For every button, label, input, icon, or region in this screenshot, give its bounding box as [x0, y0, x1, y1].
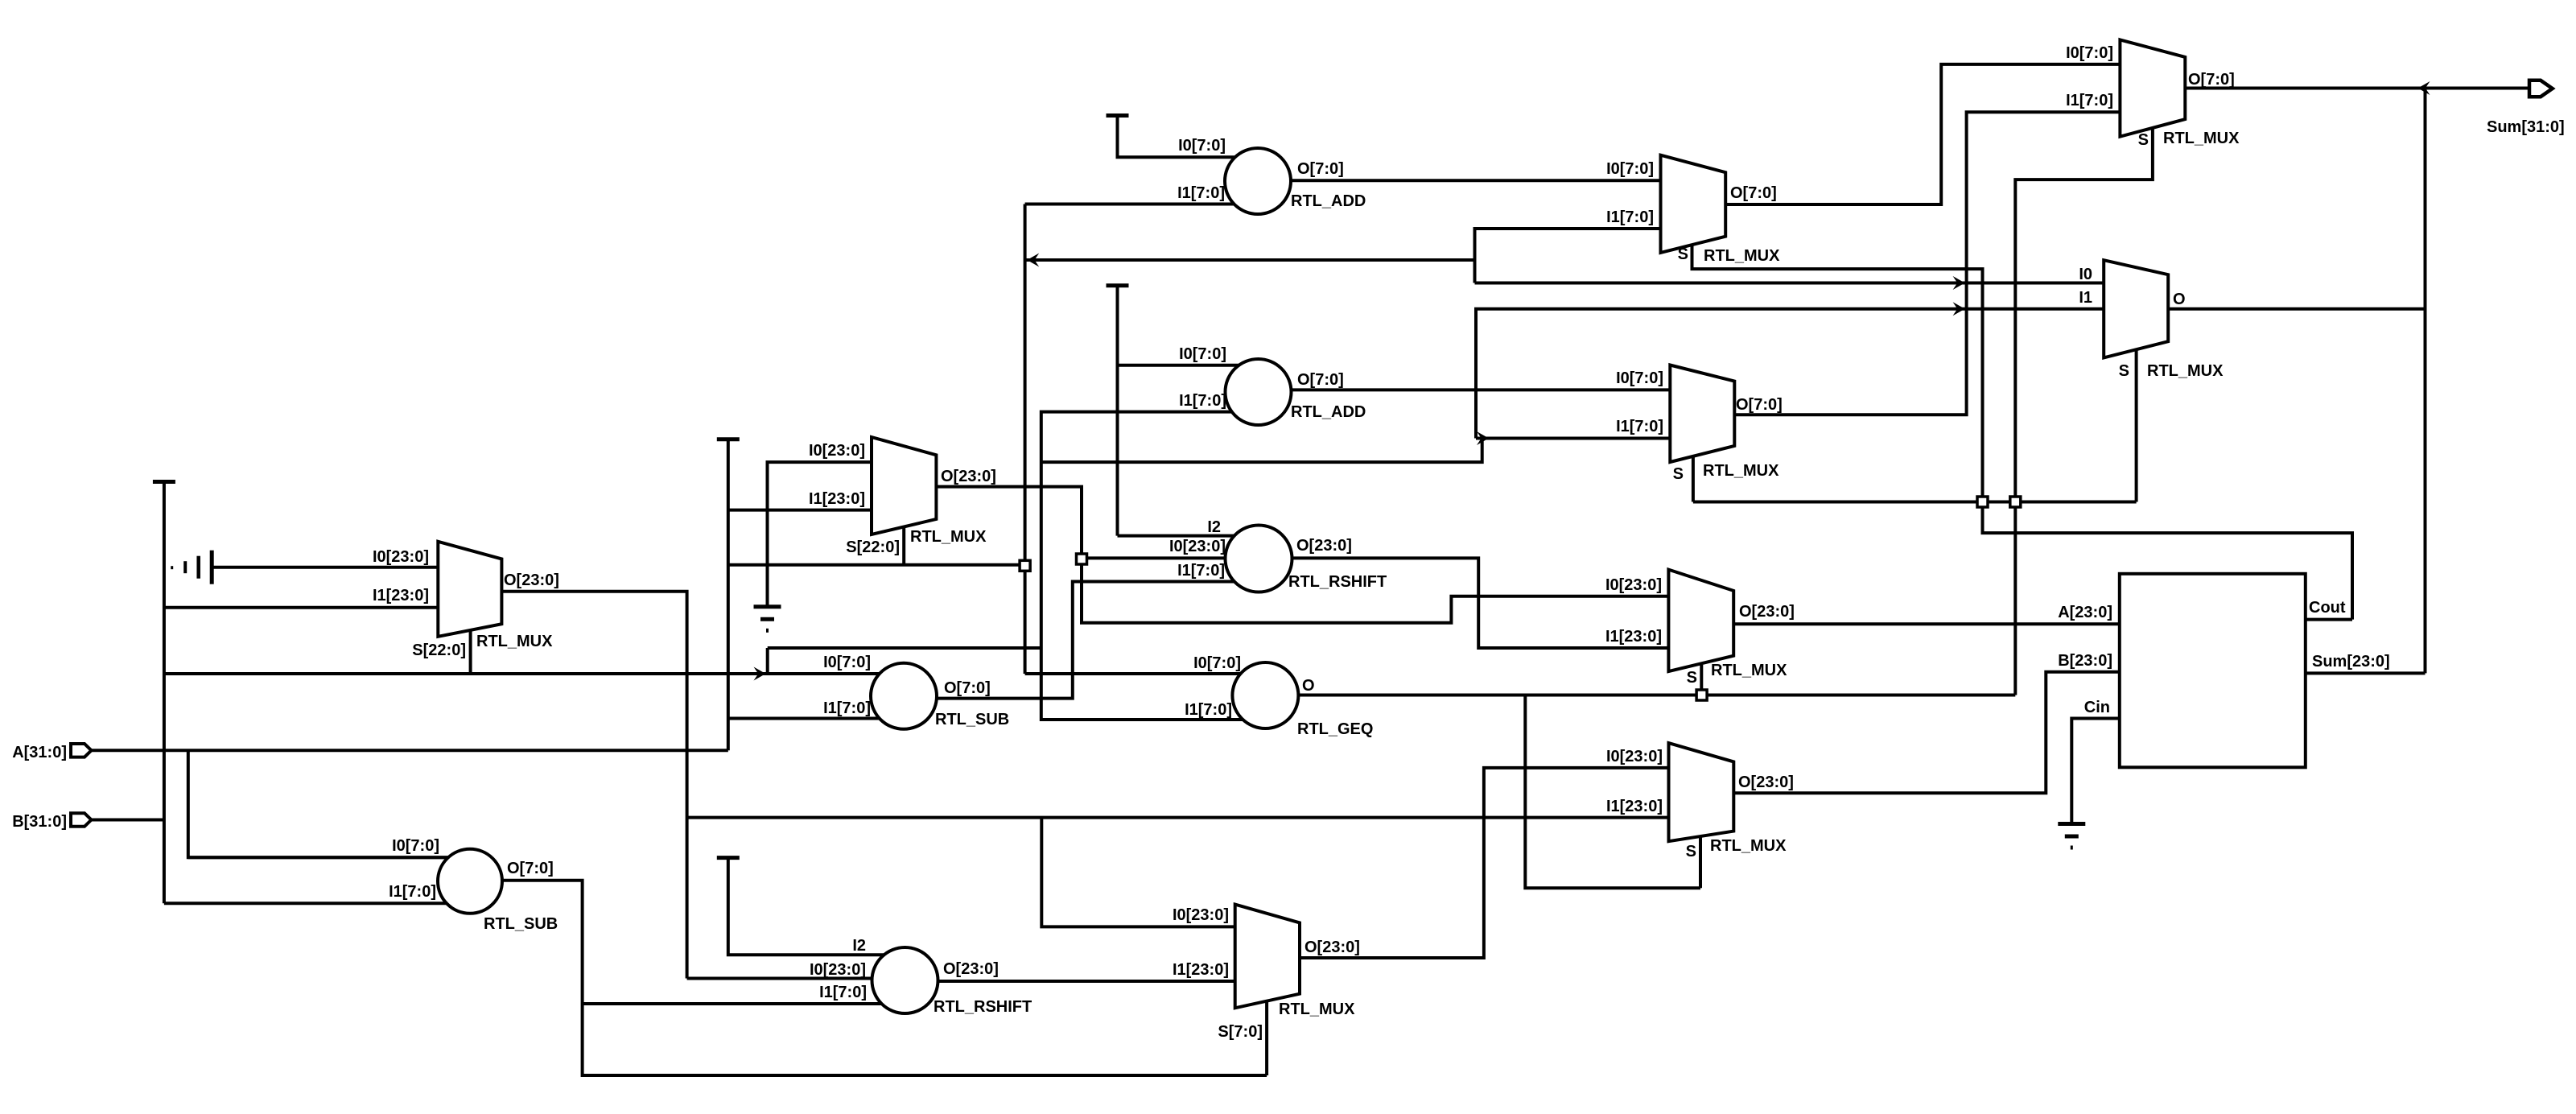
mux U3 RTL_MUX top	[1661, 155, 1726, 253]
svg-text:I0[7:0]: I0[7:0]	[1179, 345, 1226, 363]
wire MUX2 S stub	[902, 526, 905, 565]
svg-text:I0[23:0]: I0[23:0]	[810, 961, 866, 979]
wire RTL_SUB2 output to MUX9 S	[499, 881, 1267, 1075]
power VCC4	[1107, 283, 1129, 287]
wire GEQ I0 input	[1025, 672, 1265, 675]
wire RTL_RSHIFT2 I1 input	[583, 1002, 905, 1005]
wire Sum vertical	[2424, 89, 2427, 674]
svg-text:S[7:0]: S[7:0]	[1218, 1023, 1263, 1041]
svg-text:RTL_MUX: RTL_MUX	[1279, 1001, 1355, 1018]
wire VCC4 to ADD2 I0	[1118, 364, 1259, 367]
wire MUX3 I1 net to MUX5 I0 junction	[1475, 282, 1967, 285]
wire RSHIFT1 output	[1259, 558, 1678, 648]
wire VCC4 to RSHIFT1 I2	[1118, 534, 1259, 538]
wire MUX5 output	[2168, 307, 2425, 311]
svg-text:I1[7:0]: I1[7:0]	[823, 699, 871, 717]
wire ADD1 I1 vertical net	[1024, 204, 1027, 675]
svg-text:RTL_MUX: RTL_MUX	[476, 633, 553, 650]
svg-text:I1[7:0]: I1[7:0]	[819, 984, 867, 1001]
svg-text:RTL_MUX: RTL_MUX	[1703, 462, 1779, 480]
junction square S bus left	[1977, 497, 1988, 507]
mux U8 RTL_MUX lower right	[1669, 743, 1734, 841]
ground GND2	[754, 604, 781, 609]
svg-text:I0[23:0]: I0[23:0]	[809, 442, 865, 460]
wire MUX2 S net horizontal	[728, 563, 1025, 567]
wire GEQ output long	[1265, 694, 2015, 697]
wire MUX1 out net to RTL_RSHIFT I0	[687, 977, 905, 980]
svg-text:RTL_ADD: RTL_ADD	[1291, 403, 1366, 421]
svg-text:O[23:0]: O[23:0]	[1738, 774, 1794, 791]
wire VCC net 2 vertical	[727, 439, 730, 751]
svg-text:O[7:0]: O[7:0]	[1297, 160, 1344, 178]
svg-text:O[23:0]: O[23:0]	[1304, 939, 1360, 956]
svg-text:I0[23:0]: I0[23:0]	[373, 548, 429, 566]
wire jog vertical to sel line	[1041, 439, 1482, 463]
power VCC5	[717, 856, 740, 860]
wire MUX5 I0 input	[1967, 282, 2104, 285]
svg-text:O[7:0]: O[7:0]	[507, 860, 554, 877]
mux U9 RTL_MUX bottom	[1235, 905, 1300, 1009]
wire MUX7 S stub	[1700, 665, 1703, 695]
wire adder Sum output	[2306, 671, 2426, 675]
svg-text:I1[7:0]: I1[7:0]	[2066, 92, 2113, 109]
subtractor circle RTL_SUB 2	[438, 849, 502, 914]
svg-text:O[23:0]: O[23:0]	[1739, 603, 1795, 621]
svg-text:RTL_RSHIFT: RTL_RSHIFT	[934, 998, 1032, 1016]
mux U5 RTL_MUX right	[2104, 260, 2168, 357]
svg-text:S: S	[2138, 131, 2149, 149]
arrowhead right y384	[1953, 302, 1965, 316]
wire arrow line y323	[1025, 258, 1475, 262]
svg-text:O[7:0]: O[7:0]	[2188, 71, 2235, 89]
mux U4 RTL_MUX top right	[2120, 39, 2185, 136]
power VCC3	[1107, 113, 1129, 118]
wire MUX5 S stub	[2135, 349, 2138, 502]
junction square S bus right	[2010, 497, 2021, 507]
svg-text:I0[7:0]: I0[7:0]	[823, 654, 871, 671]
svg-text:I1[7:0]: I1[7:0]	[1177, 184, 1225, 202]
svg-text:O[23:0]: O[23:0]	[1296, 537, 1352, 555]
input port A[31:0]	[71, 744, 92, 757]
ground GND1	[210, 551, 214, 584]
wire Cin	[2071, 719, 2120, 824]
svg-text:RTL_MUX: RTL_MUX	[1711, 662, 1787, 679]
wire MUX1 out net long horizontal to MUX8 I1	[687, 816, 1678, 819]
wire MUX8 S stub	[1699, 835, 1702, 888]
svg-text:I0[7:0]: I0[7:0]	[1193, 654, 1241, 672]
svg-text:I1[7:0]: I1[7:0]	[1616, 418, 1663, 435]
svg-text:I1[23:0]: I1[23:0]	[1173, 961, 1229, 979]
svg-text:O[7:0]: O[7:0]	[1730, 184, 1777, 202]
svg-text:S[22:0]: S[22:0]	[412, 642, 466, 659]
svg-text:S: S	[1673, 465, 1684, 483]
wire ADD2 output to MUX6 I0	[1259, 388, 1679, 391]
wire MUX1 output	[491, 592, 687, 979]
wire MUX9 output to MUX8 I0	[1300, 768, 1678, 958]
power VCC1	[153, 480, 175, 484]
wire MUX1 S stub	[469, 629, 472, 674]
svg-text:I0[7:0]: I0[7:0]	[392, 837, 439, 855]
wire MUX5 I1 long horizontal	[1476, 309, 2104, 439]
adder circle RTL_ADD 2	[1226, 359, 1292, 425]
svg-text:I1[7:0]: I1[7:0]	[389, 883, 436, 901]
wire MUX1 I1 input	[164, 606, 438, 609]
svg-text:I0: I0	[2079, 266, 2092, 283]
svg-text:Sum[31:0]: Sum[31:0]	[2487, 118, 2565, 136]
wire MUX3 output to MUX4 I0	[1725, 64, 2120, 204]
wire VCC net 1 vertical	[163, 482, 166, 904]
wire ground 2 stem to MUX2 I0	[768, 462, 882, 607]
svg-text:S: S	[1686, 843, 1696, 860]
svg-text:I0[7:0]: I0[7:0]	[1616, 369, 1663, 387]
mux U2 RTL_MUX mid	[872, 437, 936, 534]
wire MUX4 output to Sum port	[2185, 87, 2529, 90]
svg-text:I1: I1	[2079, 289, 2092, 307]
svg-text:I2: I2	[1207, 518, 1221, 536]
svg-text:I0[23:0]: I0[23:0]	[1173, 906, 1229, 924]
adder block 24-bit	[2120, 574, 2306, 768]
svg-text:I0[23:0]: I0[23:0]	[1606, 748, 1663, 765]
output port Sum[31:0]	[2529, 80, 2553, 97]
mux U1 RTL_MUX left	[438, 542, 501, 637]
wire RTL_SUB mid I1 input	[728, 717, 904, 720]
svg-text:S: S	[1678, 245, 1688, 263]
wire B[31:0] from port	[92, 819, 164, 822]
svg-text:I0[23:0]: I0[23:0]	[1605, 576, 1662, 594]
svg-text:I1[7:0]: I1[7:0]	[1185, 701, 1232, 719]
wire VCC net1 to RTL_SUB I1	[164, 902, 470, 905]
svg-text:I0[7:0]: I0[7:0]	[1606, 160, 1654, 178]
wire GEQ out to MUX8 S	[1525, 695, 1700, 889]
wire MUX2 I1 input	[728, 509, 881, 512]
wire VCC net 4 vertical	[1116, 286, 1119, 536]
shifter circle RTL_RSHIFT 1	[1226, 526, 1292, 592]
wire A[31:0] net horizontal	[91, 749, 728, 752]
wire MUX2 out net to RSHIFT1 I0	[1086, 556, 1259, 559]
svg-text:I0[7:0]: I0[7:0]	[2066, 44, 2113, 62]
svg-text:RTL_SUB: RTL_SUB	[484, 915, 558, 933]
svg-text:I1[23:0]: I1[23:0]	[809, 490, 865, 508]
wire RTL_RSHIFT2 output to MUX9 I1	[905, 980, 1235, 983]
svg-text:RTL_ADD: RTL_ADD	[1291, 192, 1366, 210]
wire MUX3 I1 input	[1475, 229, 1671, 283]
svg-text:O[23:0]: O[23:0]	[504, 571, 559, 589]
ground GND3	[2058, 822, 2085, 826]
svg-text:I1[7:0]: I1[7:0]	[1177, 562, 1225, 580]
mux U7 RTL_MUX	[1668, 570, 1733, 672]
wire ADD1 I1 input	[1025, 203, 1258, 206]
svg-text:Cout: Cout	[2309, 599, 2346, 617]
arrowhead at Sum junction	[2418, 81, 2430, 95]
wire MUX2 output down	[936, 487, 1082, 555]
svg-text:I1[23:0]: I1[23:0]	[1605, 628, 1662, 646]
wire branch vertical to MUX9 I0	[1041, 818, 1243, 927]
arrowhead right y353	[1953, 276, 1965, 290]
svg-text:O[7:0]: O[7:0]	[1297, 371, 1344, 389]
junction square MUX2 out net	[1077, 554, 1087, 564]
power VCC2	[717, 437, 740, 441]
junction square S-net on ADD1-I1 vertical	[1020, 560, 1030, 571]
wire MUX4 S stub and net	[2015, 129, 2153, 695]
svg-text:S: S	[1687, 669, 1697, 687]
svg-text:O: O	[1302, 677, 1315, 695]
wire Cout	[2306, 618, 2352, 621]
svg-text:RTL_MUX: RTL_MUX	[1704, 247, 1780, 265]
wire sel net horizontal y805	[768, 646, 1041, 650]
comparator circle RTL_GEQ	[1232, 662, 1298, 728]
svg-text:O[23:0]: O[23:0]	[943, 960, 999, 978]
input port B[31:0]	[71, 813, 92, 827]
svg-text:RTL_GEQ: RTL_GEQ	[1297, 720, 1373, 738]
svg-text:O[7:0]: O[7:0]	[944, 679, 991, 697]
svg-text:S[22:0]: S[22:0]	[846, 538, 900, 556]
wire VCC net 5 stem to RSHIFT2 I2	[728, 858, 905, 955]
svg-text:RTL_MUX: RTL_MUX	[910, 528, 987, 546]
wire MUX6 S stub	[1692, 456, 1695, 502]
svg-text:B[23:0]: B[23:0]	[2058, 652, 2112, 670]
mux U6 RTL_MUX mid right	[1670, 365, 1734, 463]
junction square MUX7 S	[1696, 690, 1707, 700]
svg-text:RTL_MUX: RTL_MUX	[2163, 130, 2240, 147]
svg-text:Sum[23:0]: Sum[23:0]	[2312, 653, 2390, 670]
svg-text:O: O	[2173, 291, 2186, 308]
svg-text:RTL_MUX: RTL_MUX	[2147, 362, 2224, 380]
wire MUX7 output to adder A	[1733, 622, 2120, 625]
wire MUX2 out net down branch	[1082, 564, 1678, 623]
wire junction vertical x954	[766, 648, 769, 674]
wire MUX9 S stub	[1265, 1002, 1268, 1075]
svg-text:I1[7:0]: I1[7:0]	[1606, 208, 1654, 226]
svg-text:RTL_RSHIFT: RTL_RSHIFT	[1288, 573, 1387, 591]
svg-text:B[31:0]: B[31:0]	[12, 813, 67, 831]
svg-text:I1[23:0]: I1[23:0]	[1606, 798, 1663, 815]
svg-text:RTL_MUX: RTL_MUX	[1710, 837, 1787, 855]
svg-text:A[23:0]: A[23:0]	[2058, 604, 2112, 621]
svg-text:I0[7:0]: I0[7:0]	[1178, 137, 1226, 155]
wire MUX3 S stub and net	[1692, 245, 2353, 620]
svg-text:O[23:0]: O[23:0]	[941, 468, 996, 485]
wire RTL_SUB mid I0 input	[768, 672, 904, 675]
arrowhead MUX6 I1	[1477, 431, 1489, 445]
shifter circle RTL_RSHIFT 2	[872, 947, 938, 1013]
adder circle RTL_ADD 1	[1225, 148, 1291, 214]
arrowhead into vertical left	[1027, 254, 1039, 267]
svg-text:I1[23:0]: I1[23:0]	[373, 587, 429, 604]
wire MUX8 output to adder B	[1733, 672, 2120, 794]
svg-text:RTL_SUB: RTL_SUB	[935, 711, 1009, 728]
svg-text:S: S	[2119, 362, 2129, 380]
wire MUX6 I1 input	[1476, 437, 1678, 440]
subtractor circle RTL_SUB mid	[871, 663, 937, 729]
svg-text:I0[23:0]: I0[23:0]	[1169, 538, 1226, 555]
wire MUX1 S net long horizontal	[164, 672, 904, 675]
wire ADD2 I1 vertical net	[1041, 412, 1265, 720]
wire ADD1 output to MUX3 I0	[1258, 179, 1670, 182]
svg-text:A[31:0]: A[31:0]	[12, 744, 67, 761]
wire RTL_SUB2 I0 input	[188, 856, 470, 859]
wire A branch vertical to RTL_SUB I0	[188, 750, 470, 857]
wire VCC net 3 stem to ADD1 I0	[1118, 116, 1259, 158]
wire S bus horizontal y623	[1693, 501, 2137, 504]
wire RTL_SUB mid output to RSHIFT1 I1	[934, 582, 1259, 699]
svg-text:I2: I2	[852, 937, 866, 955]
wire ground to MUX1 I0	[212, 566, 447, 569]
svg-text:I1[7:0]: I1[7:0]	[1179, 392, 1226, 410]
arrowhead on S net at junction	[754, 667, 766, 681]
svg-text:O[7:0]: O[7:0]	[1736, 396, 1783, 414]
svg-text:Cin: Cin	[2084, 699, 2110, 716]
wire MUX6 output to MUX4 I1	[1734, 112, 2120, 415]
